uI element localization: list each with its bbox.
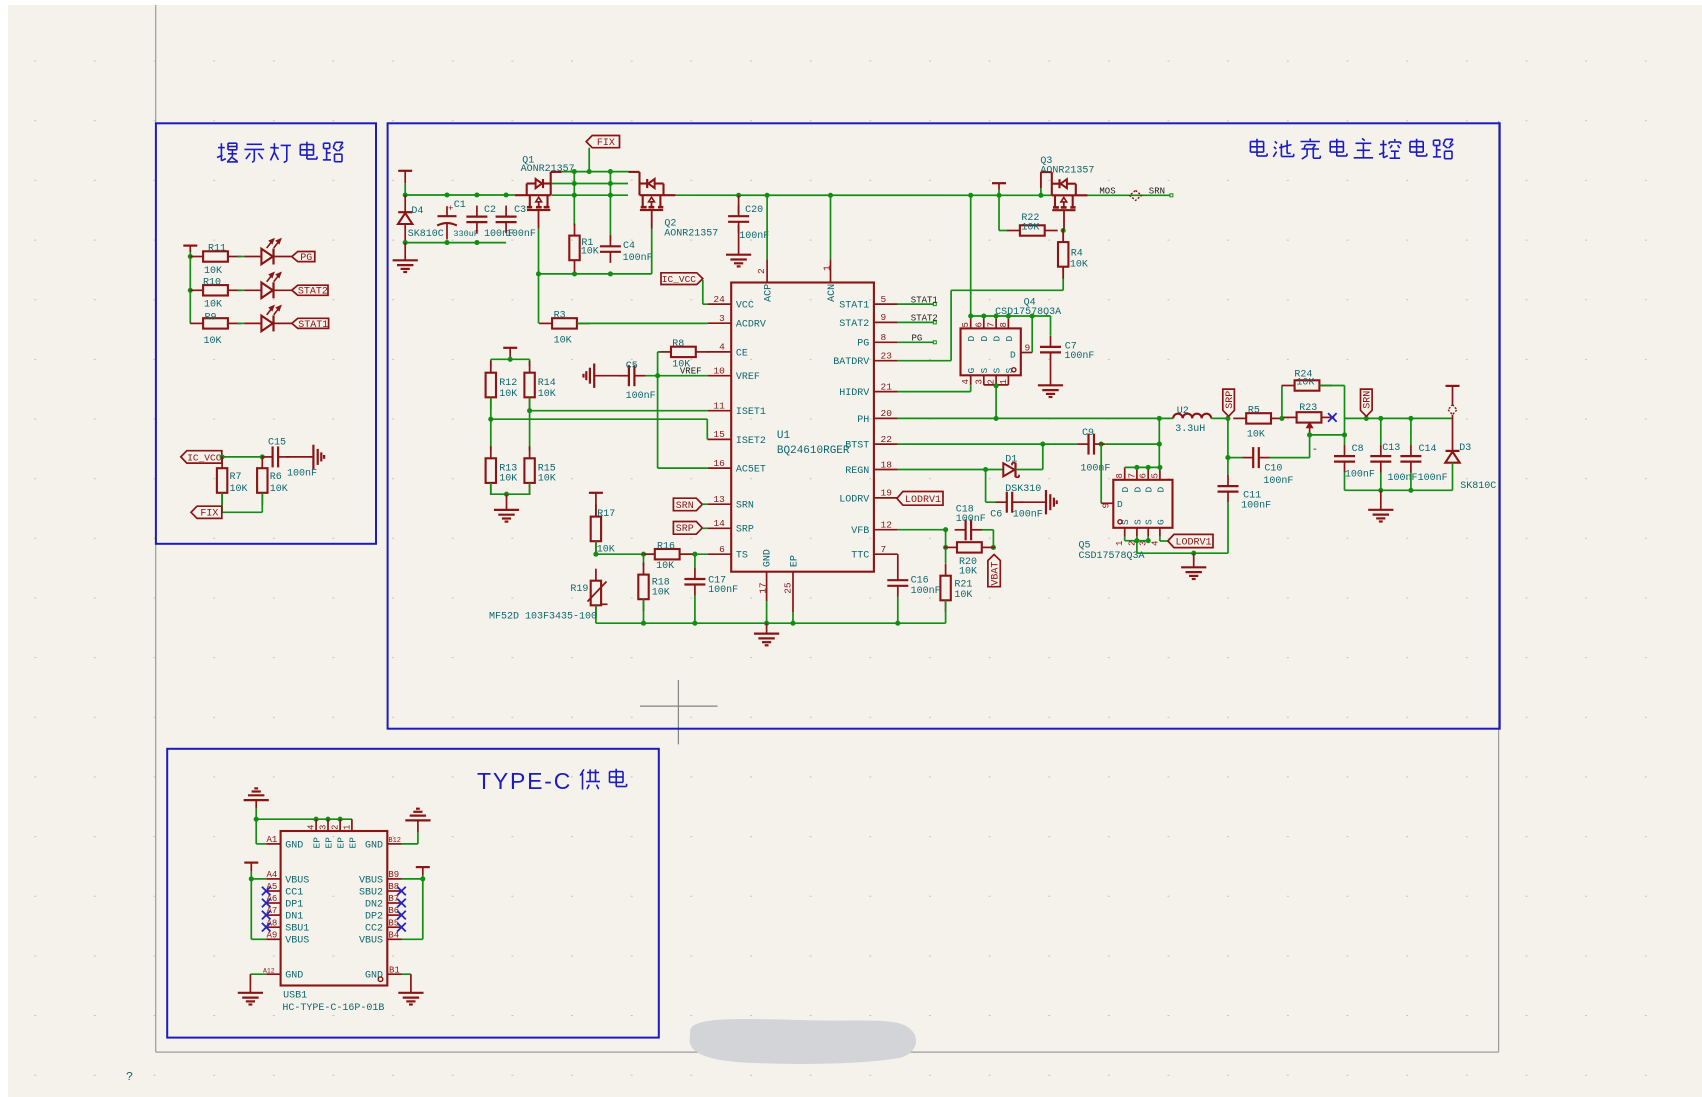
no-connect X (R23) bbox=[1328, 413, 1337, 422]
junction bbox=[254, 817, 259, 822]
global label VBAT bbox=[988, 555, 1000, 587]
wire (TTC) bbox=[897, 554, 899, 569]
wire bbox=[189, 252, 191, 323]
svg-text:IC_VCC: IC_VCC bbox=[187, 452, 222, 463]
junction bbox=[994, 416, 999, 421]
U1 pin 10 VREF bbox=[708, 375, 732, 377]
svg-text:100nF: 100nF bbox=[708, 585, 738, 596]
junction bbox=[403, 192, 408, 197]
svg-text:100nF: 100nF bbox=[287, 468, 317, 479]
U1 pin 24 VCC bbox=[708, 303, 732, 305]
svg-text:REGN: REGN bbox=[845, 466, 869, 477]
wire (VFB) bbox=[898, 529, 946, 531]
svg-text:SRN: SRN bbox=[1363, 391, 1374, 409]
svg-text:8: 8 bbox=[1115, 473, 1125, 478]
svg-text:VBAT: VBAT bbox=[991, 562, 1002, 586]
wire bbox=[274, 322, 292, 324]
no-connect X bbox=[397, 923, 406, 932]
wire (REGN) bbox=[898, 469, 1004, 471]
wire bbox=[643, 599, 645, 623]
svg-text:11: 11 bbox=[713, 401, 725, 412]
svg-text:D: D bbox=[1010, 350, 1016, 361]
svg-text:20: 20 bbox=[881, 408, 893, 419]
global label IC_VCC (main) bbox=[661, 273, 703, 285]
capacitor C17 bbox=[694, 554, 696, 568]
wire bbox=[538, 274, 540, 324]
ground (top-left, flipped) bbox=[244, 799, 269, 801]
svg-text:LODRV1: LODRV1 bbox=[1175, 537, 1211, 548]
capacitor C9 bbox=[1078, 443, 1089, 445]
resistor R1 bbox=[574, 224, 576, 236]
wire (ACDRV) bbox=[577, 322, 708, 324]
wire bbox=[286, 456, 313, 458]
svg-text:LODRV1: LODRV1 bbox=[905, 495, 941, 506]
wire (out gnd rail) bbox=[1345, 489, 1453, 491]
svg-text:BATDRV: BATDRV bbox=[833, 357, 869, 368]
svg-text:SRP: SRP bbox=[1225, 391, 1236, 409]
svg-text:R4: R4 bbox=[1071, 249, 1083, 260]
wire (VREF) bbox=[645, 375, 708, 377]
wire bbox=[573, 172, 575, 226]
svg-text:C16: C16 bbox=[911, 576, 929, 587]
inductor U2 3.3uH bbox=[1173, 414, 1211, 419]
capacitor C20 bbox=[738, 195, 740, 213]
svg-text:A8: A8 bbox=[267, 918, 278, 928]
wire bbox=[702, 503, 707, 505]
svg-text:10K: 10K bbox=[1296, 378, 1314, 389]
wire bbox=[402, 973, 411, 975]
wire bbox=[766, 623, 768, 633]
svg-text:9: 9 bbox=[1101, 503, 1112, 509]
capacitor C7 bbox=[1050, 316, 1052, 336]
svg-text:10K: 10K bbox=[954, 590, 972, 601]
svg-text:+: + bbox=[448, 204, 453, 214]
wire bbox=[255, 819, 257, 844]
svg-text:TS: TS bbox=[736, 551, 748, 562]
resistor R16 bbox=[642, 553, 655, 555]
svg-text:AC5ET: AC5ET bbox=[736, 465, 766, 476]
svg-text:3: 3 bbox=[974, 379, 984, 384]
junction bbox=[1378, 488, 1383, 493]
svg-text:17: 17 bbox=[757, 582, 768, 593]
svg-text:100nF: 100nF bbox=[506, 229, 536, 240]
svg-text:CE: CE bbox=[736, 348, 748, 359]
wire (ISET2) bbox=[490, 398, 492, 420]
svg-text:?: ? bbox=[126, 1070, 133, 1084]
diode D1 DSK310 bbox=[1003, 463, 1014, 476]
wire bbox=[238, 256, 245, 258]
svg-text:D4: D4 bbox=[411, 206, 423, 217]
svg-text:10K: 10K bbox=[204, 266, 222, 277]
svg-text:SRN: SRN bbox=[1149, 187, 1165, 197]
USB1 EP pins 4,3,2,1 bbox=[315, 819, 317, 831]
junction bbox=[220, 454, 225, 459]
svg-text:3.3uH: 3.3uH bbox=[1175, 424, 1205, 435]
resistor R11 bbox=[190, 256, 203, 258]
wire (BATDRV) bbox=[898, 360, 951, 362]
U1 pin 9 STAT2 bbox=[874, 321, 898, 323]
power flag (VCC mid) bbox=[992, 182, 1006, 184]
USB1 pin A7 DN1 bbox=[266, 914, 280, 916]
capacitor C13 bbox=[1380, 418, 1382, 445]
svg-text:STAT1: STAT1 bbox=[839, 301, 869, 312]
wire bbox=[702, 280, 704, 304]
svg-text:9: 9 bbox=[1025, 343, 1031, 354]
svg-text:GND: GND bbox=[365, 971, 383, 982]
svg-text:10K: 10K bbox=[270, 484, 288, 495]
svg-text:GND: GND bbox=[285, 971, 303, 982]
junction bbox=[527, 408, 532, 413]
svg-text:ISET1: ISET1 bbox=[736, 407, 766, 418]
U1 pin 17 GND bbox=[766, 572, 768, 601]
wire (EP tie) bbox=[256, 818, 352, 820]
svg-text:R3: R3 bbox=[554, 310, 566, 321]
title 提示灯电路 bbox=[220, 143, 222, 161]
svg-text:23: 23 bbox=[881, 351, 893, 362]
capacitor C2 bbox=[476, 206, 478, 217]
resistor R4 bbox=[1062, 230, 1064, 242]
wire bbox=[255, 800, 257, 808]
USB1 pin B12 GND bbox=[387, 843, 401, 845]
svg-text:ISET2: ISET2 bbox=[736, 436, 766, 447]
svg-text:100nF: 100nF bbox=[626, 391, 656, 402]
wire bbox=[588, 148, 590, 172]
svg-text:A7: A7 bbox=[267, 906, 278, 916]
USB1 pin B1 GND bbox=[387, 973, 401, 975]
capacitor C15 bbox=[262, 456, 273, 458]
svg-text:U2: U2 bbox=[1177, 406, 1189, 417]
svg-text:1: 1 bbox=[822, 265, 833, 271]
svg-text:S: S bbox=[979, 368, 990, 374]
svg-text:G: G bbox=[966, 368, 977, 374]
wire bbox=[238, 322, 245, 324]
wire bbox=[982, 529, 993, 531]
ground (bottom-right) bbox=[398, 992, 423, 994]
wire (Q5 gate) bbox=[1159, 537, 1161, 541]
svg-text:16: 16 bbox=[713, 458, 725, 469]
svg-text:D3: D3 bbox=[1459, 443, 1471, 454]
svg-text:2: 2 bbox=[756, 268, 767, 274]
svg-text:D: D bbox=[992, 336, 1003, 342]
power flag (TS) bbox=[589, 492, 603, 494]
svg-text:PG: PG bbox=[857, 339, 869, 350]
USB1 pin A1 GND bbox=[266, 843, 280, 845]
wire (MOS/SRN) bbox=[1088, 194, 1171, 196]
svg-text:AONR21357: AONR21357 bbox=[1040, 166, 1094, 177]
svg-text:10K: 10K bbox=[230, 484, 248, 495]
wire bbox=[1344, 472, 1346, 490]
svg-text:10K: 10K bbox=[581, 247, 599, 258]
global label LODRV1 (Q5) bbox=[1168, 534, 1213, 547]
wire bbox=[1050, 363, 1052, 385]
wire (gnd run) bbox=[1137, 552, 1228, 554]
svg-text:IC_VCC: IC_VCC bbox=[662, 274, 697, 285]
svg-text:HC-TYPE-C-16P-01B: HC-TYPE-C-16P-01B bbox=[282, 1003, 384, 1014]
wire bbox=[1452, 463, 1454, 491]
wire bbox=[999, 230, 1007, 232]
cursor crosshair bbox=[640, 705, 718, 707]
wire (gnd rail) bbox=[596, 622, 946, 624]
wire (source rail) bbox=[552, 194, 629, 196]
transistor Q3 bbox=[1052, 194, 1088, 196]
title 电池充电主控电路 bbox=[1250, 141, 1263, 143]
resistor R12 bbox=[490, 361, 492, 373]
wire bbox=[998, 190, 1000, 231]
svg-text:100nF: 100nF bbox=[739, 231, 769, 242]
svg-text:12: 12 bbox=[881, 520, 893, 531]
wire bbox=[1380, 472, 1382, 490]
capacitor C16 bbox=[897, 569, 899, 580]
wire bbox=[274, 256, 292, 258]
ground (earth right) bbox=[312, 445, 314, 469]
svg-text:C6: C6 bbox=[990, 510, 1002, 521]
USB1 pin B8 SBU2 bbox=[387, 890, 401, 892]
resistor R22 bbox=[1007, 230, 1020, 232]
svg-text:R6: R6 bbox=[270, 472, 282, 483]
svg-text:D: D bbox=[966, 336, 977, 342]
svg-text:R23: R23 bbox=[1299, 403, 1317, 414]
svg-text:100nF: 100nF bbox=[1241, 500, 1271, 511]
svg-text:D: D bbox=[1132, 487, 1143, 493]
diode D3 bbox=[1446, 450, 1460, 452]
svg-text:C1: C1 bbox=[454, 200, 466, 211]
wire bbox=[506, 494, 508, 510]
wire (SRN out) bbox=[1345, 417, 1453, 419]
no-connect X bbox=[262, 887, 271, 896]
junction bbox=[994, 383, 999, 388]
wire (input rail) bbox=[405, 194, 515, 196]
junction bbox=[1364, 416, 1369, 421]
svg-text:STAT1: STAT1 bbox=[911, 295, 938, 305]
svg-text:VFB: VFB bbox=[851, 526, 869, 537]
ground bbox=[393, 259, 418, 261]
global label SRP (output) bbox=[1223, 389, 1235, 416]
svg-text:3: 3 bbox=[719, 313, 725, 324]
capacitor C1 (polarized) bbox=[446, 206, 448, 216]
U1 pin 3 ACDRV bbox=[708, 322, 732, 324]
svg-text:9: 9 bbox=[881, 312, 887, 323]
svg-text:ACDRV: ACDRV bbox=[736, 320, 766, 331]
svg-text:R11: R11 bbox=[208, 244, 226, 255]
section box: indicator LED circuit bbox=[156, 123, 376, 544]
svg-text:SBU1: SBU1 bbox=[285, 924, 309, 935]
capacitor C18 bbox=[955, 529, 966, 531]
transistor Q4 CSD17578Q3A bbox=[961, 328, 1021, 375]
global label SRN (U1) bbox=[673, 498, 702, 511]
svg-text:C20: C20 bbox=[745, 205, 763, 216]
wire bbox=[702, 527, 707, 529]
U1 pin 21 HIDRV bbox=[874, 391, 898, 393]
resistor R17 bbox=[595, 505, 597, 517]
svg-text:SRP: SRP bbox=[736, 525, 754, 536]
wire bbox=[1452, 415, 1454, 451]
svg-text:CC2: CC2 bbox=[365, 924, 383, 935]
svg-text:R5: R5 bbox=[1248, 405, 1260, 416]
svg-text:BQ24610RGER: BQ24610RGER bbox=[777, 445, 850, 457]
USB1 pin A4 VBUS bbox=[266, 878, 280, 880]
LED D_STAT2 bbox=[244, 289, 261, 291]
transistor Q1 bbox=[515, 194, 551, 196]
USB1 pin B4 VBUS bbox=[387, 938, 401, 940]
global label SRP (U1) bbox=[673, 522, 702, 535]
svg-text:19: 19 bbox=[881, 488, 893, 499]
thermistor R19 bbox=[595, 569, 597, 581]
svg-text:10K: 10K bbox=[656, 561, 674, 572]
USB1 pin B6 DP2 bbox=[387, 914, 401, 916]
svg-text:G: G bbox=[1155, 519, 1166, 525]
svg-text:SRN: SRN bbox=[736, 501, 754, 512]
svg-text:SRN: SRN bbox=[676, 501, 694, 512]
svg-text:EP: EP bbox=[323, 837, 334, 849]
svg-text:C5: C5 bbox=[626, 361, 638, 372]
U1 pin 8 PG bbox=[874, 341, 898, 343]
svg-text:D: D bbox=[1155, 487, 1166, 493]
svg-text:4: 4 bbox=[961, 379, 971, 384]
junction bbox=[536, 271, 541, 276]
svg-text:C14: C14 bbox=[1419, 444, 1437, 455]
wire bbox=[897, 597, 899, 624]
transistor Q2 bbox=[640, 194, 676, 196]
no-connect X bbox=[397, 887, 406, 896]
svg-text:EP: EP bbox=[347, 837, 358, 849]
svg-text:GND: GND bbox=[763, 549, 774, 567]
svg-text:10K: 10K bbox=[538, 474, 556, 485]
section box: TYPE-C power bbox=[167, 749, 659, 1038]
power flag (VBUS right) bbox=[416, 866, 430, 868]
junction bbox=[983, 467, 988, 472]
USB1 pin A9 VBUS bbox=[266, 938, 280, 940]
U1 pin 23 BATDRV bbox=[874, 360, 898, 362]
ground (main) bbox=[754, 632, 779, 634]
svg-text:GND: GND bbox=[365, 840, 383, 851]
U1 pin 7 TTC bbox=[874, 553, 898, 555]
U1 pin 1 ACN bbox=[830, 195, 832, 259]
svg-text:AONR21357: AONR21357 bbox=[521, 164, 575, 175]
svg-text:AONR21357: AONR21357 bbox=[664, 229, 718, 240]
USB1 pin A8 SBU1 bbox=[266, 926, 280, 928]
svg-text:ACN: ACN bbox=[827, 284, 838, 302]
wire (Q4 source tie) bbox=[984, 384, 1009, 386]
svg-text:R9: R9 bbox=[205, 313, 217, 324]
wire bbox=[1100, 444, 1102, 503]
svg-text:10K: 10K bbox=[499, 474, 517, 485]
U1 pin 25 EP bbox=[792, 572, 794, 612]
svg-text:S: S bbox=[992, 368, 1003, 374]
svg-text:VREF: VREF bbox=[736, 372, 760, 383]
svg-text:SK810C: SK810C bbox=[1460, 481, 1496, 492]
wire (Q4 drain rail) bbox=[971, 315, 1051, 317]
wire (Q5 drain rail) bbox=[1125, 466, 1160, 468]
white page margins bbox=[0, 0, 8, 1097]
resistor R13 bbox=[490, 446, 492, 458]
no-connect X bbox=[397, 911, 406, 920]
svg-text:8: 8 bbox=[999, 322, 1009, 327]
svg-text:10K: 10K bbox=[652, 587, 670, 598]
svg-text:R14: R14 bbox=[538, 378, 556, 389]
svg-text:100nF: 100nF bbox=[1080, 463, 1110, 474]
global label LODRV1 (U1) bbox=[897, 492, 943, 506]
redacted gray blob bbox=[698, 1027, 908, 1056]
power flag (VBAT out) bbox=[1446, 385, 1460, 387]
svg-text:GND: GND bbox=[285, 840, 303, 851]
svg-text:VBUS: VBUS bbox=[285, 875, 309, 886]
junction bbox=[655, 373, 660, 378]
svg-text:6: 6 bbox=[974, 322, 984, 327]
no-connect X bbox=[397, 899, 406, 908]
svg-text:A9: A9 bbox=[267, 930, 278, 940]
svg-text:C9: C9 bbox=[1082, 428, 1094, 439]
wire bbox=[1380, 490, 1382, 510]
wire bbox=[490, 483, 492, 494]
junction bbox=[1342, 432, 1347, 437]
junction bbox=[403, 240, 408, 245]
svg-text:USB1: USB1 bbox=[283, 990, 307, 1001]
svg-text:2: 2 bbox=[331, 825, 341, 830]
svg-text:10K: 10K bbox=[1021, 222, 1039, 233]
capacitor C5 bbox=[618, 375, 629, 377]
svg-text:ACP: ACP bbox=[764, 284, 775, 302]
wire bbox=[945, 530, 947, 564]
svg-text:6: 6 bbox=[719, 544, 725, 555]
svg-text:TTC: TTC bbox=[851, 551, 869, 562]
svg-text:VBUS: VBUS bbox=[285, 936, 309, 947]
junction bbox=[1040, 442, 1045, 447]
svg-text:10: 10 bbox=[713, 366, 725, 377]
global label STAT2 bbox=[292, 285, 328, 295]
junction bbox=[1134, 465, 1139, 470]
svg-text:PH: PH bbox=[857, 415, 869, 426]
U1 pin 22 BTST bbox=[874, 443, 898, 445]
resistor R14 bbox=[529, 361, 531, 373]
svg-text:FIX: FIX bbox=[200, 509, 218, 520]
svg-text:100nF: 100nF bbox=[1418, 473, 1448, 484]
svg-text:EP: EP bbox=[789, 555, 800, 567]
U1 pin 6 TS bbox=[708, 553, 732, 555]
svg-text:VCC: VCC bbox=[736, 301, 754, 312]
ground (earth left) bbox=[593, 364, 595, 388]
svg-text:C4: C4 bbox=[623, 241, 635, 252]
wire (SRP drop) bbox=[1227, 418, 1229, 475]
svg-text:3: 3 bbox=[319, 825, 329, 830]
wire bbox=[643, 554, 645, 566]
wire bbox=[609, 172, 611, 241]
svg-text:FIX: FIX bbox=[597, 138, 615, 149]
svg-text:R7: R7 bbox=[230, 472, 242, 483]
resistor R3 bbox=[539, 322, 552, 324]
svg-text:7: 7 bbox=[881, 544, 887, 555]
svg-text:B9: B9 bbox=[388, 870, 399, 880]
USB1 pin B5 CC2 bbox=[387, 926, 401, 928]
svg-text:15: 15 bbox=[713, 429, 725, 440]
svg-text:D: D bbox=[1004, 336, 1015, 342]
svg-text:B4: B4 bbox=[388, 930, 399, 940]
svg-text:VBUS: VBUS bbox=[359, 875, 383, 886]
junction bbox=[1279, 416, 1284, 421]
LED D_STAT1 bbox=[244, 322, 261, 324]
wire (PH) bbox=[898, 417, 1173, 419]
junction bbox=[504, 492, 509, 497]
U1 pin 16 AC5ET bbox=[708, 467, 732, 469]
svg-text:S: S bbox=[1144, 519, 1155, 525]
wire bbox=[694, 595, 696, 623]
junction bbox=[1225, 455, 1230, 460]
svg-text:10K: 10K bbox=[499, 389, 517, 400]
svg-text:6: 6 bbox=[1139, 473, 1149, 478]
wire bbox=[995, 385, 997, 419]
wire bbox=[1136, 541, 1138, 554]
U1 pin 13 SRN bbox=[708, 503, 732, 505]
junction bbox=[1225, 416, 1230, 421]
